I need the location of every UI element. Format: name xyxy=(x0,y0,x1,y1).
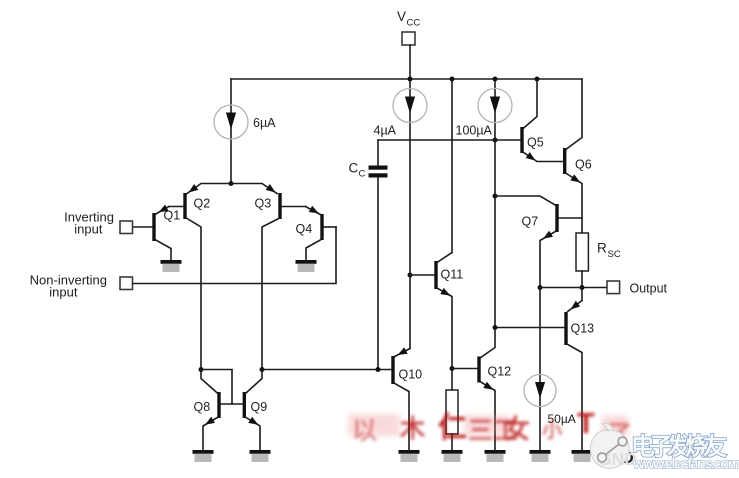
label CC xyxy=(349,161,366,180)
wire: output line xyxy=(540,287,607,289)
svg-text:Q1: Q1 xyxy=(164,209,181,223)
node GND xyxy=(596,448,634,467)
label Q12 xyxy=(488,365,512,379)
wire: Q2/Q3 emitter rail xyxy=(186,184,277,196)
node: CC / Q10 base junction xyxy=(376,367,381,372)
red watermark text xyxy=(346,402,636,444)
power terminal VCC xyxy=(402,32,415,45)
input terminal: inverting input xyxy=(120,221,133,234)
svg-text:Q10: Q10 xyxy=(399,368,423,382)
wire: mirror base jog xyxy=(201,370,232,405)
svg-text:Q9: Q9 xyxy=(251,400,268,414)
transistor Q5 xyxy=(520,79,563,163)
ground (Q10 emitter) xyxy=(399,450,420,462)
node: Q5 base tap xyxy=(493,138,498,143)
svg-text:Q11: Q11 xyxy=(441,268,464,282)
node: Q11 base junction xyxy=(408,273,413,278)
label Q3 xyxy=(255,197,272,211)
label Q13 xyxy=(571,322,595,336)
current source 100uA xyxy=(478,79,512,328)
node: bus / VCC xyxy=(408,77,413,82)
ground (Q12 emitter) xyxy=(485,450,506,462)
node: bus / Q5 collector xyxy=(535,77,540,82)
label Q6 xyxy=(575,158,592,172)
node: bus / Q11 collector xyxy=(450,77,455,82)
node: 100uA / Q7 collector xyxy=(493,194,498,199)
wire: Q2 collector xyxy=(187,219,201,370)
label 100uA xyxy=(456,124,493,138)
label Q9 xyxy=(251,400,268,414)
svg-text:C: C xyxy=(349,161,359,176)
svg-text:Q7: Q7 xyxy=(522,215,539,229)
wire: Q8-Q9 base rail xyxy=(221,403,243,405)
svg-text:6µA: 6µA xyxy=(253,116,276,130)
node: Q11 emitter / Q12 base junction xyxy=(450,366,455,371)
svg-text:CC: CC xyxy=(407,18,421,29)
node: tail current junction xyxy=(229,181,234,186)
output terminal xyxy=(607,281,620,294)
wire: Q7 emitter / 50uA column xyxy=(539,288,541,451)
node: Q12 collector / Q13 base xyxy=(493,325,498,330)
svg-text:Q12: Q12 xyxy=(488,365,512,379)
svg-text:www.elecfans.com: www.elecfans.com xyxy=(632,456,739,473)
label Q11 xyxy=(441,268,464,282)
transistor Q3 xyxy=(278,193,305,219)
transistor Q12 xyxy=(477,328,495,451)
label Q7 xyxy=(522,215,539,229)
svg-text:4µA: 4µA xyxy=(374,124,397,138)
svg-text:SC: SC xyxy=(608,249,621,260)
label RSC xyxy=(597,241,621,261)
transistor Q13 xyxy=(564,301,582,451)
label Q4 xyxy=(296,222,313,236)
node: output / RSC junction xyxy=(580,285,585,290)
wire: Q11 base xyxy=(410,274,434,276)
ground (Q4 collector) xyxy=(296,260,317,272)
node: Q9 collector junction xyxy=(260,367,265,372)
gray logo watermark xyxy=(578,408,739,478)
ground (R1) xyxy=(442,450,463,462)
svg-text:Q8: Q8 xyxy=(194,400,211,414)
svg-text:Q13: Q13 xyxy=(571,322,595,336)
svg-text:Q3: Q3 xyxy=(255,197,272,211)
svg-text:C: C xyxy=(359,169,366,180)
label Q10 xyxy=(399,368,423,382)
ground (Q13 emitter) xyxy=(572,450,593,462)
wire: VCC bus xyxy=(231,78,582,80)
svg-text:Q5: Q5 xyxy=(527,136,544,150)
current source 6uA xyxy=(214,79,248,184)
wire: Q13 base xyxy=(495,327,564,329)
svg-text:Q6: Q6 xyxy=(575,158,592,172)
svg-text:R: R xyxy=(597,241,607,256)
label VCC xyxy=(397,9,420,29)
node: output / 50uA junction xyxy=(538,285,543,290)
transistor Q7 xyxy=(495,196,582,288)
label 50uA xyxy=(548,412,576,426)
wire: mirror output to Q10 base xyxy=(262,369,391,371)
label Q5 xyxy=(527,136,544,150)
ground (Q8 emitter) xyxy=(193,450,214,462)
current source 50uA xyxy=(524,375,556,407)
current source 4uA xyxy=(393,79,427,349)
node: Q8 collector junction xyxy=(199,367,204,372)
transistor Q6 xyxy=(563,79,582,233)
wire: Q3 collector xyxy=(262,219,279,370)
label Q1 xyxy=(164,209,181,223)
svg-text:V: V xyxy=(397,9,406,24)
wire: Q12 base xyxy=(452,368,477,370)
transistor Q4 xyxy=(306,206,337,260)
wire: bias rail to Q5 base xyxy=(378,139,520,141)
transistor Q9 xyxy=(243,370,262,451)
transistor Q1 xyxy=(133,205,172,260)
label 4uA xyxy=(374,124,397,138)
wire: non-inverting input to Q4 base xyxy=(133,227,337,284)
transistor Q11 xyxy=(434,253,452,369)
resistor R1 xyxy=(446,369,458,451)
svg-text:Q2: Q2 xyxy=(194,197,211,211)
resistor RSC xyxy=(576,233,588,301)
label 6uA xyxy=(253,116,276,130)
input terminal: non-inverting input xyxy=(120,277,133,290)
wire VCC terminal to bus xyxy=(409,45,411,79)
svg-text:Q4: Q4 xyxy=(296,222,313,236)
transistor Q10 xyxy=(391,347,410,450)
label Q8 xyxy=(194,400,211,414)
ground (Q1 collector) xyxy=(161,260,182,272)
label inverting input xyxy=(64,210,114,237)
svg-text:input: input xyxy=(49,285,78,300)
wire: bus to Q11 collector xyxy=(451,79,453,253)
label non-inverting input xyxy=(30,273,107,300)
svg-text:100µA: 100µA xyxy=(456,124,493,138)
ground (Q9 emitter) xyxy=(250,450,271,462)
svg-text:input: input xyxy=(74,222,103,237)
node: bus / 100uA xyxy=(493,77,498,82)
label Output xyxy=(630,282,668,296)
transistor Q2 xyxy=(169,193,187,219)
svg-text:Output: Output xyxy=(630,282,668,296)
capacitor CC xyxy=(369,140,388,370)
transistor Q8 xyxy=(201,370,221,451)
label Q2 xyxy=(194,197,211,211)
ground (50uA) xyxy=(530,450,551,462)
